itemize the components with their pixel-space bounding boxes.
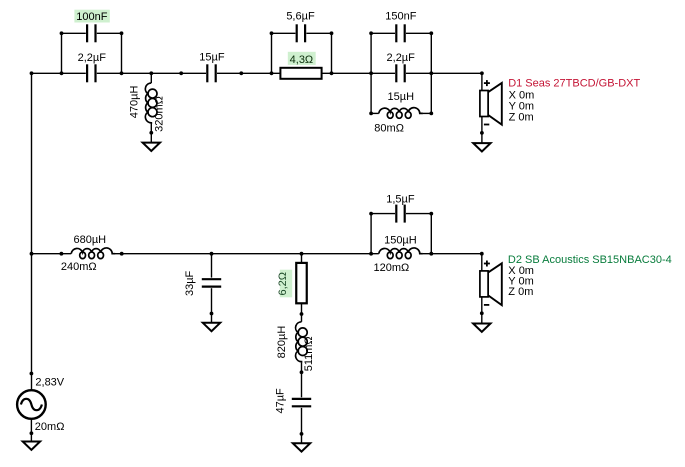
svg-text:Z 0m: Z 0m (509, 111, 534, 123)
svg-text:2,2µF: 2,2µF (78, 52, 107, 64)
svg-text:20mΩ: 20mΩ (35, 421, 65, 433)
svg-text:15µH: 15µH (388, 91, 415, 103)
svg-text:150µH: 150µH (384, 235, 417, 247)
svg-text:680µH: 680µH (73, 234, 106, 246)
svg-text:320mΩ: 320mΩ (154, 96, 166, 132)
svg-text:Z 0m: Z 0m (508, 286, 533, 298)
svg-text:100nF: 100nF (76, 11, 107, 23)
svg-text:470µH: 470µH (129, 86, 141, 119)
svg-text:120mΩ: 120mΩ (374, 262, 410, 274)
svg-text:80mΩ: 80mΩ (374, 122, 404, 134)
svg-text:150nF: 150nF (385, 11, 416, 23)
svg-text:4,3Ω: 4,3Ω (290, 54, 314, 66)
svg-text:47µF: 47µF (275, 388, 287, 414)
svg-text:240mΩ: 240mΩ (61, 261, 97, 273)
svg-text:820µH: 820µH (276, 326, 288, 359)
svg-text:33µF: 33µF (184, 270, 196, 296)
svg-text:511mΩ: 511mΩ (303, 336, 315, 371)
svg-text:2,83V: 2,83V (35, 377, 64, 389)
svg-text:2,2µF: 2,2µF (387, 52, 416, 64)
svg-text:5,6µF: 5,6µF (286, 11, 315, 23)
svg-text:D1 Seas 27TBCD/GB-DXT: D1 Seas 27TBCD/GB-DXT (508, 77, 640, 89)
svg-text:15µF: 15µF (199, 51, 225, 63)
svg-text:1,5µF: 1,5µF (386, 194, 415, 206)
svg-text:6,2Ω: 6,2Ω (277, 272, 289, 296)
